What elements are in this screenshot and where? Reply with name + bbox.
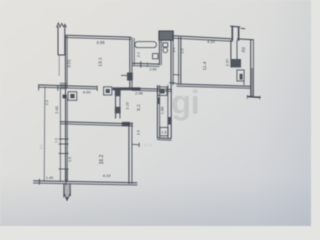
svg-text:1.0: 1.0 (137, 130, 141, 135)
svg-text:2.0: 2.0 (180, 49, 184, 54)
big room top wall with dark door jamb (60, 122, 133, 124)
outer wall left middle (kitchen cell) (59, 88, 61, 123)
svg-text:5.2: 5.2 (136, 104, 141, 111)
vent block on room1 right wall (127, 73, 133, 81)
room 1 top wall (double) (65, 35, 131, 37)
WC column walls (156, 85, 158, 138)
loggia door jamb dark (230, 59, 241, 67)
loggia window box with dark mark (237, 70, 244, 81)
svg-text:11.4: 11.4 (202, 61, 208, 70)
entrance strip with arrow below big room (64, 184, 70, 197)
bathroom bottom wall with door gap (132, 62, 160, 65)
big room right wall with stub (128, 122, 130, 184)
svg-text:4.00: 4.00 (83, 90, 92, 95)
svg-text:1.40: 1.40 (46, 176, 53, 180)
vent block dark above WC (159, 31, 173, 40)
svg-text:3.01: 3.01 (67, 59, 72, 68)
svg-text:3.0: 3.0 (40, 145, 44, 150)
room 1 bottom-left corner jamb (60, 83, 67, 90)
svg-text:gi: gi (171, 84, 199, 121)
washbasin (153, 54, 158, 59)
toilet (163, 43, 168, 47)
box 1.5 (160, 127, 168, 135)
bathroom left wall (133, 38, 135, 65)
kitchen top wall (double) (173, 36, 233, 39)
WC column dark dashes (157, 98, 160, 105)
kitchen bottom wall (double) (176, 84, 250, 86)
kitchen right wall (thick outer) (230, 40, 232, 59)
svg-text:4.20: 4.20 (207, 39, 216, 44)
svg-text:13.1: 13.1 (98, 57, 104, 67)
WC right wall (170, 40, 172, 85)
window jamb ticks on big room left wall (59, 138, 69, 140)
loggia bottom tick (247, 96, 261, 99)
room 1 left wall (64, 36, 66, 89)
stove square 1 (68, 92, 77, 101)
big room bottom wall (double) with ticks (33, 181, 137, 183)
svg-text:2.10: 2.10 (126, 102, 130, 109)
WC column top tick (169, 82, 176, 85)
stove square 2 (104, 87, 112, 95)
svg-text:17.3: 17.3 (144, 143, 153, 148)
svg-text:2.40: 2.40 (54, 105, 59, 114)
svg-text:1.5: 1.5 (161, 131, 166, 135)
central wall with dark jambs (115, 90, 117, 119)
roof column top-right with T cap (231, 27, 233, 41)
balcony thin line (43, 87, 46, 181)
svg-text:2.69: 2.69 (150, 67, 157, 71)
left outer tick wall above balcony + hall top wall (38, 85, 97, 87)
dark jamb bottom-left of big room (65, 169, 68, 181)
vent shaft top-left with squiggle top (58, 26, 65, 55)
faint outer line left of room 1 wall (58, 55, 60, 76)
svg-text:2.1: 2.1 (136, 52, 140, 57)
svg-text:1.0: 1.0 (172, 48, 176, 53)
svg-text:Л3: Л3 (241, 47, 246, 53)
svg-text:16.2: 16.2 (99, 154, 105, 164)
bathtub (135, 42, 157, 48)
kitchen left wall (178, 37, 180, 85)
tick right of WC wall (173, 74, 180, 76)
svg-text:2.97: 2.97 (225, 59, 229, 66)
WC left wall (158, 40, 160, 65)
svg-text:1.5: 1.5 (68, 157, 72, 162)
room 1 right wall (129, 37, 131, 89)
svg-text:2.96: 2.96 (135, 90, 144, 95)
svg-text:4.06: 4.06 (96, 40, 105, 45)
kitchen cell door jamb dark (63, 95, 67, 99)
loggia top wall (237, 38, 254, 41)
WC column bottom wall (157, 137, 172, 140)
svg-text:1.88: 1.88 (160, 107, 164, 114)
dimension and room labels (40, 39, 247, 180)
loggia right wall (250, 39, 252, 96)
big room left outer wall (59, 123, 61, 182)
svg-text:0.9: 0.9 (55, 138, 59, 143)
svg-text:4.10: 4.10 (103, 173, 112, 178)
svg-text:2.2: 2.2 (45, 100, 49, 105)
vent square at WC column top (158, 87, 167, 96)
